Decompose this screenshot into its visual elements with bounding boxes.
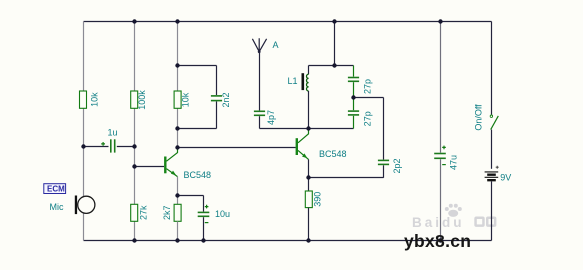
resistor R1 10k xyxy=(80,91,87,108)
wire mic to bottom rail xyxy=(83,213,85,240)
wire 47u column upper xyxy=(440,22,442,153)
wire column x=177.6 to collector node xyxy=(177,129,179,148)
node Q1 emitter xyxy=(175,193,179,197)
node 27p tap xyxy=(351,95,355,99)
wire switch to battery xyxy=(491,130,493,169)
resistor R2 100k xyxy=(131,91,138,108)
wire 390 to bottom rail xyxy=(308,208,310,241)
wire 2p2 top lead xyxy=(383,98,385,160)
resistor R4 27k xyxy=(131,204,138,221)
wire 2n2 top link xyxy=(178,65,217,67)
capacitor C3 10u xyxy=(198,212,210,216)
svg-text:2k7: 2k7 xyxy=(162,206,172,221)
antenna A xyxy=(252,38,266,53)
node top rail / 100k xyxy=(132,19,136,23)
svg-text:Baidu: Baidu xyxy=(412,215,465,230)
wire tank right leg bottom xyxy=(353,116,355,129)
capacitor C6 27p xyxy=(348,111,359,115)
wire feedback tap horizontal xyxy=(354,97,384,99)
wire column x=177.6 upper xyxy=(177,22,179,92)
resistor R5 2k7 xyxy=(174,204,181,221)
svg-text:9V: 9V xyxy=(500,172,511,182)
svg-text:27p: 27p xyxy=(362,111,372,126)
label ECM box xyxy=(44,184,66,194)
capacitor C7 2p2 xyxy=(378,160,389,164)
node bottom rail / 390 xyxy=(306,238,310,242)
wire tank bottom xyxy=(260,128,354,130)
transistor Q1 BC548 xyxy=(164,148,177,177)
plus mark of C3 xyxy=(205,205,209,209)
switch On/Off xyxy=(490,115,498,130)
wire column x=134 mid xyxy=(134,108,136,166)
node 1u left xyxy=(81,144,85,148)
wire battery to bottom rail xyxy=(491,181,493,240)
capacitor C2 2n2 xyxy=(211,96,222,101)
wire tank feed vertical xyxy=(334,22,336,66)
wire 2n2 bottom link xyxy=(178,128,217,130)
node top rail / tank feed xyxy=(332,19,336,23)
wire Q1 collector to Q2 base xyxy=(178,147,296,149)
plus mark of C1 xyxy=(101,142,105,146)
wire 1u right segment xyxy=(117,146,135,148)
wire 1u left segment xyxy=(84,146,109,148)
node Q1 base xyxy=(132,164,136,168)
wire antenna drop xyxy=(259,52,261,111)
node Q2 collector xyxy=(306,126,310,130)
wire tank right leg middle xyxy=(353,82,355,110)
Baidu watermark boxes xyxy=(474,217,496,227)
transistor Q2 BC548 xyxy=(296,129,309,160)
wire bottom rail xyxy=(84,240,492,242)
svg-text:On/Off: On/Off xyxy=(473,104,483,131)
wire column x=177.6 mid xyxy=(177,108,179,128)
node top rail / 47u xyxy=(438,19,442,23)
wire Q2 emitter to 390 xyxy=(308,178,310,192)
wire 4p7 bottom lead xyxy=(259,116,261,128)
node bottom rail / 47u xyxy=(438,238,442,242)
wire 2n2 bottom lead xyxy=(216,102,218,129)
wire left column mid xyxy=(83,108,85,146)
svg-text:ybx8.cn: ybx8.cn xyxy=(404,231,471,251)
svg-text:47u: 47u xyxy=(448,155,458,170)
capacitor C8 47u xyxy=(434,154,446,159)
wire right column top xyxy=(491,22,493,115)
node bottom rail / 2k7 xyxy=(175,238,179,242)
capacitor C4 4p7 xyxy=(254,111,265,115)
node 2n2 bottom xyxy=(175,126,179,130)
wire top rail xyxy=(84,21,492,23)
node bottom rail / 10u xyxy=(201,238,205,242)
node bottom rail / 27k xyxy=(132,238,136,242)
wire tank left leg lower xyxy=(308,91,310,129)
svg-text:4p7: 4p7 xyxy=(266,110,276,125)
node tank link top xyxy=(175,63,179,67)
minus mark of C8 xyxy=(442,164,446,166)
wire column x=134 lower xyxy=(134,167,136,205)
minus mark of C3 xyxy=(205,222,209,224)
svg-text:27k: 27k xyxy=(139,205,149,220)
svg-text:A: A xyxy=(273,40,279,50)
wire 10u bottom lead xyxy=(203,217,205,240)
wire left column to mic xyxy=(83,147,85,197)
svg-text:390: 390 xyxy=(313,192,323,207)
wire emitter to 10u xyxy=(178,195,204,197)
wire 2n2 top lead xyxy=(216,66,218,96)
wire Q2 emitter upper xyxy=(308,159,310,177)
svg-text:BC548: BC548 xyxy=(319,149,347,159)
wire 10u top lead xyxy=(203,196,205,212)
capacitor C5 27p xyxy=(348,78,359,82)
wire left column upper (x=83) xyxy=(83,22,85,92)
svg-text:ECM: ECM xyxy=(47,185,65,194)
resistor R6 390 xyxy=(305,191,312,208)
battery B1 9V xyxy=(485,166,499,181)
capacitor C1 1u plates xyxy=(111,139,115,152)
svg-text:10k: 10k xyxy=(90,92,100,107)
wire 2k7 to bottom rail xyxy=(177,221,179,240)
wire Q1 base xyxy=(135,166,165,168)
wire 47u column lower xyxy=(440,159,442,240)
wire tank top xyxy=(309,65,354,67)
svg-text:1u: 1u xyxy=(108,128,118,138)
svg-text:27p: 27p xyxy=(362,79,372,94)
svg-text:2n2: 2n2 xyxy=(221,92,231,107)
node Q1 collector xyxy=(175,145,179,149)
node Q2 emitter xyxy=(306,175,310,179)
plus mark of C8 xyxy=(442,146,446,150)
svg-text:10k: 10k xyxy=(181,92,191,107)
svg-text:Mic: Mic xyxy=(50,202,64,212)
node tank top xyxy=(332,63,336,67)
wire tank left leg upper xyxy=(308,66,310,75)
inductor L1 xyxy=(302,73,309,91)
wire Q1 emitter column xyxy=(177,177,179,205)
node 1u right xyxy=(132,144,136,148)
svg-text:BC548: BC548 xyxy=(184,170,212,180)
wire 2p2 bottom lead xyxy=(383,165,385,178)
resistor R3 10k xyxy=(174,91,181,108)
wire 27k to bottom rail xyxy=(134,221,136,240)
wire tank right leg top xyxy=(353,66,355,77)
svg-text:100k: 100k xyxy=(137,90,147,110)
microphone ECM xyxy=(75,196,95,215)
node top rail / 10k load xyxy=(175,19,179,23)
wire column x=134 upper xyxy=(134,22,136,92)
svg-text:2p2: 2p2 xyxy=(392,158,402,173)
Baidu watermark paw logo xyxy=(445,204,462,217)
wire Q2 emitter to 2p2 xyxy=(309,177,384,179)
svg-text:L1: L1 xyxy=(288,76,298,86)
svg-text:10u: 10u xyxy=(215,209,230,219)
